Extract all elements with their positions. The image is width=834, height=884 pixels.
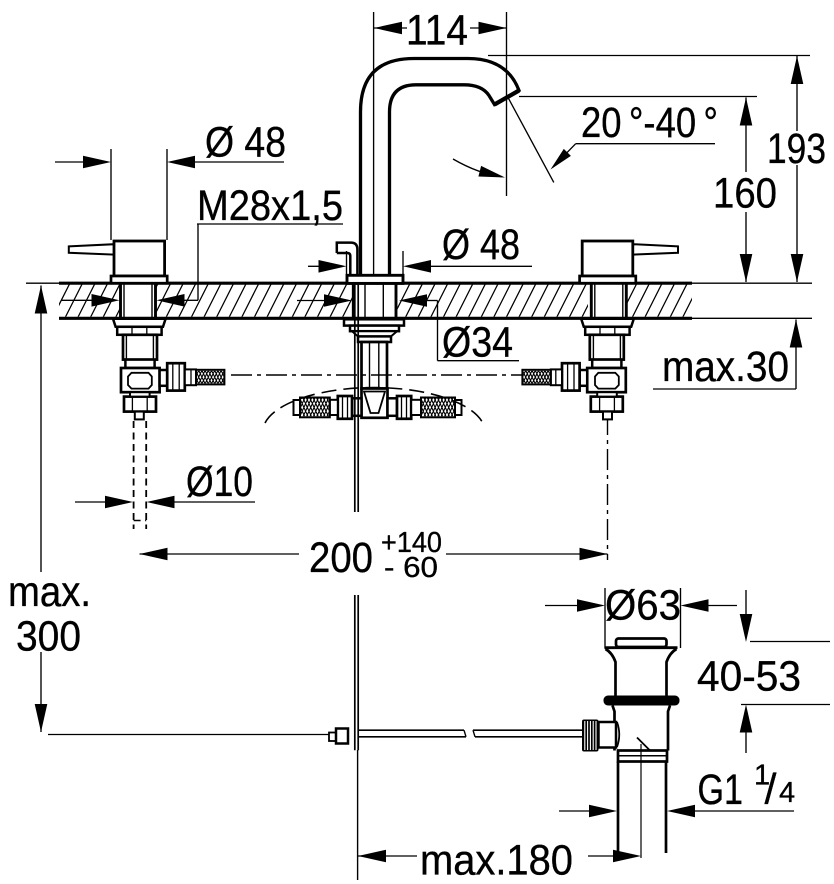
left valve — [69, 241, 231, 419]
dimension Ø10 — [75, 501, 106, 503]
dimension Ø48 spout escutcheon — [346, 251, 348, 274]
valve side stub — [160, 370, 168, 386]
dimension max.30 — [653, 388, 796, 390]
valve lever — [69, 244, 114, 254]
svg-text:/: / — [765, 766, 777, 814]
linkage guide line — [48, 734, 329, 736]
tee left ferrule — [330, 400, 338, 415]
deck bottom surface line — [59, 317, 692, 320]
valve bottom connector — [130, 392, 150, 396]
114 right extension line — [506, 12, 508, 196]
svg-text:300: 300 — [16, 613, 81, 661]
waste body below seal — [613, 706, 671, 751]
svg-text:20 °-40 °: 20 °-40 ° — [581, 99, 718, 147]
tee right hose end cap — [455, 400, 462, 415]
spout axis / 114 left extension line — [373, 12, 375, 276]
valve hose ferrule — [551, 369, 562, 385]
valve hex locknut — [117, 327, 161, 335]
pop-up rod lower segment — [354, 595, 356, 750]
spout body — [361, 59, 520, 277]
label M28x1,5 — [197, 223, 343, 225]
valve side stub — [580, 370, 588, 386]
centre tee funnel — [364, 392, 385, 414]
svg-text:160: 160 — [713, 170, 777, 218]
spout outlet face — [495, 91, 520, 105]
svg-text:max.180: max.180 — [420, 837, 573, 884]
tee left braided hose — [300, 398, 330, 418]
valve locknut washer — [113, 319, 166, 327]
valve bottom connector — [597, 392, 617, 396]
dimension max.300 — [40, 286, 42, 573]
dimension 114 — [374, 27, 407, 29]
svg-text:- 60: - 60 — [384, 552, 438, 584]
valve handle body — [114, 241, 165, 276]
waste centre line — [640, 744, 642, 858]
dimension 193 — [488, 55, 810, 57]
svg-text:Ø10: Ø10 — [186, 458, 253, 506]
right valve centre dash-dot line — [607, 414, 609, 560]
pop-up rod knob above deck — [337, 243, 358, 276]
svg-text:Ø63: Ø63 — [605, 582, 681, 630]
horizontal pop-up linkage rod — [358, 729, 464, 731]
valve elbow block — [587, 368, 626, 392]
valve base flange — [580, 276, 636, 283]
swivel arc arrow — [453, 159, 502, 177]
tee left stub — [352, 398, 362, 416]
centre shank collar — [358, 336, 391, 342]
centre tee block — [362, 389, 388, 418]
svg-text:40-53: 40-53 — [697, 653, 801, 701]
deck top surface line — [59, 282, 692, 285]
countertop deck hatching — [40, 284, 712, 317]
waste lever diagonal — [637, 738, 651, 752]
valve base flange — [111, 276, 167, 283]
tee right ferrule — [411, 400, 421, 415]
right valve (mirrored) — [516, 241, 678, 419]
basin rim dashed arc — [265, 388, 484, 426]
centre shank taper — [352, 331, 397, 336]
water stream angle line — [509, 98, 554, 182]
svg-text:200: 200 — [309, 534, 373, 582]
dimension 20-40 degrees — [576, 143, 715, 145]
valve elbow block — [121, 368, 160, 392]
valve bottom nut — [591, 397, 623, 412]
valve bottom stub — [603, 412, 612, 420]
valve locknut washer — [581, 319, 634, 327]
valve braided hose — [522, 370, 550, 385]
valve side hex nut — [167, 363, 185, 390]
svg-text:M28x1,5: M28x1,5 — [197, 182, 343, 230]
dimension 200 +140/-60 — [140, 553, 300, 555]
centre tailpiece tube — [362, 342, 388, 389]
deck hole centre spout shank — [352, 284, 398, 317]
pop-up rod upper segment — [354, 284, 356, 513]
dimension Ø48 left valve — [110, 149, 112, 240]
svg-text:193: 193 — [767, 125, 826, 173]
tee right stub — [388, 398, 398, 416]
deck hole right valve — [588, 284, 627, 317]
valve hose ferrule — [185, 369, 196, 385]
valve handle body — [582, 241, 633, 276]
waste rubber seal — [604, 696, 680, 706]
valve shank walls through deck — [119, 284, 122, 319]
valve braided hose — [196, 370, 224, 385]
waste funnel sides — [606, 649, 677, 696]
valve shank walls through deck — [625, 284, 628, 319]
valve body step — [125, 360, 154, 368]
linkage clamp — [329, 733, 336, 742]
waste funnel rim — [605, 646, 678, 649]
valve body step — [592, 360, 621, 368]
valve side hex nut — [562, 363, 580, 390]
waste threaded ring — [618, 751, 667, 762]
spout escutcheon — [347, 275, 403, 283]
svg-text:G1: G1 — [698, 766, 744, 814]
waste tailpipe — [617, 762, 620, 854]
dimension G1 1/4 — [559, 810, 590, 812]
valve lever — [633, 244, 678, 254]
dimension max.180 — [358, 855, 417, 857]
svg-text:Ø 48: Ø 48 — [205, 119, 286, 167]
svg-text:Ø34: Ø34 — [442, 319, 513, 367]
waste plug cap — [616, 639, 667, 648]
svg-text:max.30: max.30 — [662, 343, 789, 391]
svg-text:114: 114 — [406, 7, 468, 55]
waste knurled knob — [582, 720, 599, 752]
dimension Ø34 shank — [297, 300, 325, 302]
valve body tube — [123, 335, 157, 360]
svg-text:Ø 48: Ø 48 — [442, 221, 520, 269]
left valve dashed outlet pipe — [133, 421, 135, 529]
dimension Ø63 — [604, 588, 606, 648]
centre shank locknut — [350, 326, 399, 332]
centre shank locknut washer — [344, 319, 404, 325]
deck hole left valve — [120, 284, 157, 317]
waste knob stem — [599, 722, 617, 748]
valve bottom stub — [135, 412, 144, 420]
waste inner arc — [617, 722, 619, 747]
centre shank through deck walls — [352, 284, 355, 319]
tee left hose end cap — [294, 400, 301, 415]
hose centre dash-dot line — [231, 374, 523, 376]
dimension 40-53 — [745, 590, 747, 616]
valve hex locknut — [585, 327, 629, 335]
dimension 160 — [519, 96, 757, 98]
tee right nut — [397, 396, 411, 419]
svg-text:4: 4 — [779, 777, 795, 809]
max.180 left extension line (pop-up rod axis) — [357, 750, 359, 880]
tee left nut — [338, 396, 352, 419]
tee right braided hose — [421, 398, 455, 418]
valve body tube — [590, 335, 624, 360]
svg-text:max.: max. — [8, 568, 91, 616]
valve bottom nut — [124, 397, 156, 412]
